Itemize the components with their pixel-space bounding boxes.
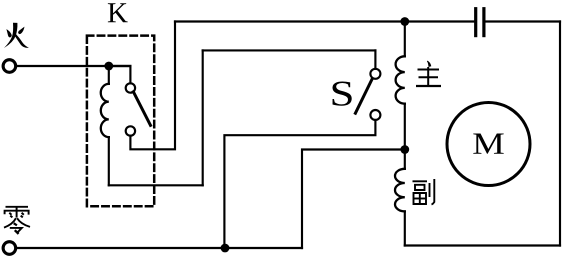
relay coil K lead from node A [108, 66, 110, 84]
capacitor C plate 2 [482, 9, 485, 36]
wire neutral [16, 247, 302, 249]
terminal 火 (live) [3, 60, 16, 73]
wire live terminal to node A [16, 65, 130, 67]
label 主 (main winding) [416, 61, 441, 86]
relay coil K (3 arcs) [101, 84, 109, 137]
switch S blade [355, 79, 372, 114]
label 副 (aux winding) [413, 179, 435, 205]
switch S bottom circle [370, 110, 380, 120]
label S [333, 82, 352, 106]
winding 主 (main) coil [396, 56, 405, 103]
winding 主 top lead [404, 22, 406, 57]
terminal 零 (neutral) [3, 242, 16, 255]
label M [473, 134, 503, 154]
wire right side down [559, 22, 561, 246]
label K [108, 3, 128, 22]
top wire to node B [175, 20, 474, 22]
capacitor C plate 1 [474, 9, 477, 36]
wire capacitor to right side [486, 20, 561, 22]
switch S top lead [374, 50, 376, 68]
wire relay contact bottom run [130, 22, 175, 150]
wire winding 副 bottom lead [404, 211, 406, 245]
node C junction dot [400, 145, 409, 154]
relay contact top circle [126, 83, 135, 92]
node D junction dot on neutral [221, 244, 230, 253]
relay K dashed box [87, 36, 154, 207]
winding 副 (aux) coil [395, 169, 405, 212]
wire node C to neutral branch [302, 150, 405, 249]
relay blade [133, 92, 150, 126]
label 火 (live) [4, 23, 29, 48]
relay contact bottom circle [126, 126, 135, 135]
switch S top circle [370, 69, 380, 79]
label 零 (neutral) [4, 207, 30, 234]
wire motor loop bottom [405, 244, 560, 246]
node B junction dot [400, 17, 409, 26]
wire up to switch feed line [202, 50, 204, 185]
wire winding 主 bottom to node C [404, 104, 406, 169]
wire switch S bottom run [224, 120, 375, 248]
node A junction dot [104, 62, 113, 71]
wire coil-bottom horizontal run [109, 184, 203, 186]
wire relay contact lead [109, 66, 131, 83]
motor M circle [447, 103, 530, 186]
wire to switch S top [203, 49, 376, 51]
wire relay coil bottom down [108, 137, 110, 185]
